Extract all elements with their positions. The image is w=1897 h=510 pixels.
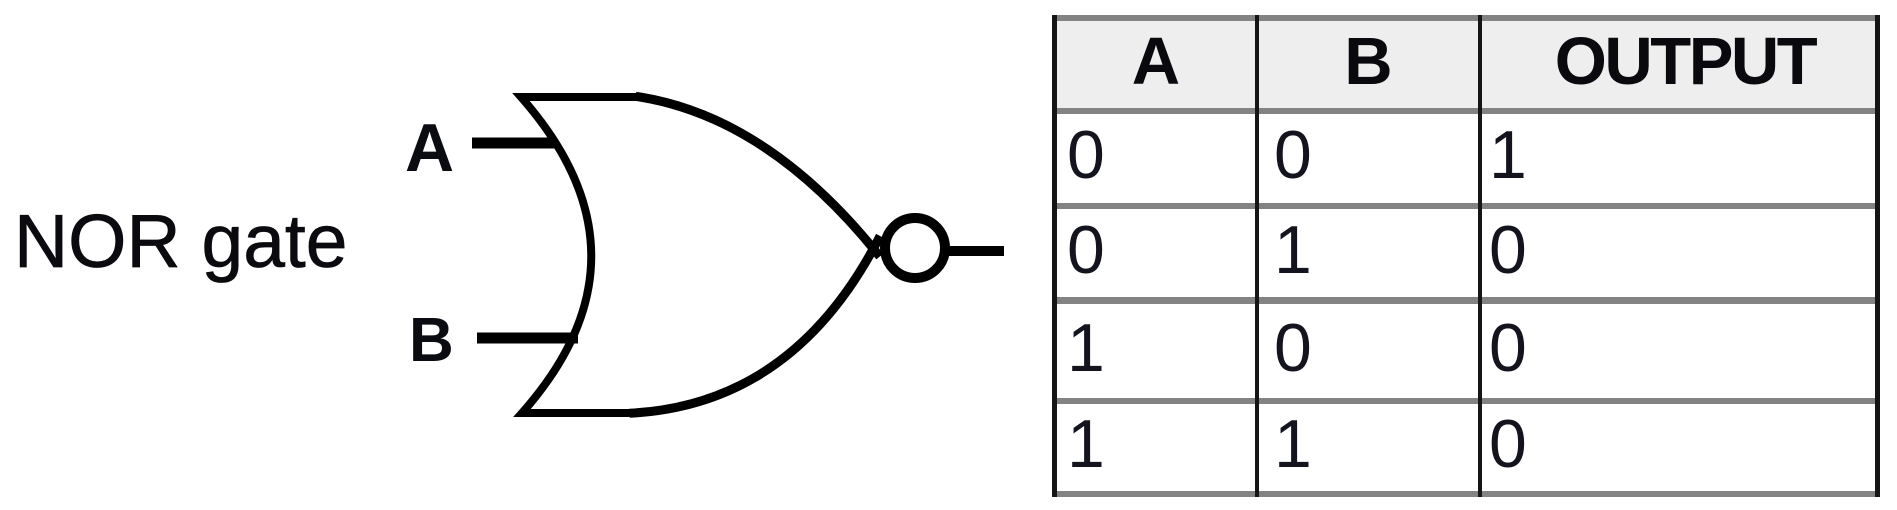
input label A — [405, 114, 454, 182]
horizontal border top — [1052, 15, 1880, 21]
OR gate top curve — [640, 97, 877, 253]
NOR gate schematic SVG — [0, 0, 1050, 510]
vertical border B|OUTPUT — [1478, 15, 1482, 497]
horizontal border header-bottom — [1052, 108, 1880, 114]
row 2 : A=0 — [1067, 209, 1247, 297]
vertical border left — [1052, 15, 1057, 497]
label "NOR gate" — [14, 204, 347, 279]
OR gate bottom curve — [634, 240, 878, 413]
vertical border A|B — [1255, 15, 1259, 497]
horizontal border row2 — [1052, 297, 1880, 304]
header background — [1052, 21, 1880, 108]
input label B — [409, 310, 454, 372]
row 3 : OUT=0 — [1489, 304, 1859, 398]
header A — [1057, 21, 1255, 108]
input wire A — [472, 138, 557, 149]
vertical border right — [1875, 15, 1880, 497]
row 4 : OUT=0 — [1489, 404, 1859, 491]
row 4 : B=1 — [1274, 404, 1469, 491]
header B — [1259, 21, 1478, 108]
inversion bubble — [885, 218, 945, 278]
row 3 : A=1 — [1067, 304, 1247, 398]
input wire B — [477, 333, 578, 344]
horizontal border bottom — [1052, 491, 1880, 497]
horizontal border row1 — [1052, 203, 1880, 209]
row 3 : B=0 — [1274, 304, 1469, 398]
row 2 : OUT=0 — [1489, 209, 1859, 297]
header OUTPUT — [1482, 21, 1875, 108]
row 4 : A=1 — [1067, 404, 1247, 491]
output wire — [949, 246, 1004, 256]
row 1 : A=0 — [1067, 114, 1247, 203]
row 2 : B=1 — [1274, 209, 1469, 297]
truth table — [1052, 15, 1880, 497]
row 1 : OUT=1 — [1489, 114, 1859, 203]
row 1 : B=0 — [1274, 114, 1469, 203]
OR gate body U1 — [521, 97, 640, 413]
horizontal border row3 — [1052, 398, 1880, 404]
